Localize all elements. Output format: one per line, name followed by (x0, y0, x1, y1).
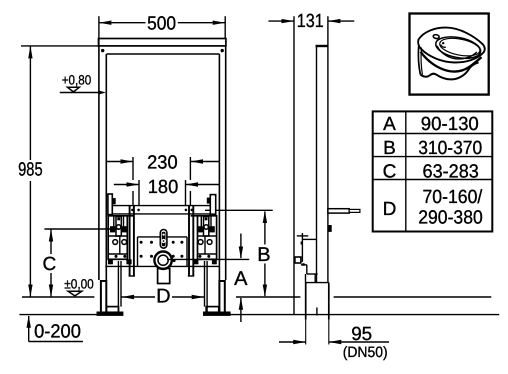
svg-text:D: D (383, 199, 397, 220)
svg-text:0-200: 0-200 (34, 321, 81, 342)
svg-text:+0,80: +0,80 (62, 72, 92, 87)
svg-text:95: 95 (351, 324, 372, 345)
svg-text:C: C (43, 254, 57, 275)
svg-text:D: D (156, 286, 170, 308)
svg-text:500: 500 (147, 14, 176, 35)
svg-text:131: 131 (297, 11, 324, 32)
svg-text:B: B (383, 138, 396, 159)
svg-text:70-160/: 70-160/ (423, 187, 483, 208)
svg-text:230: 230 (147, 153, 178, 174)
svg-text:180: 180 (148, 177, 179, 198)
svg-text:290-380: 290-380 (418, 208, 483, 229)
svg-text:±0,00: ±0,00 (64, 276, 94, 291)
svg-text:63-283: 63-283 (423, 162, 479, 183)
svg-text:310-370: 310-370 (418, 138, 482, 159)
svg-text:(DN50): (DN50) (343, 344, 388, 361)
svg-text:A: A (234, 268, 248, 290)
svg-text:C: C (383, 162, 397, 183)
svg-text:B: B (257, 244, 270, 266)
svg-text:985: 985 (18, 160, 43, 181)
svg-text:A: A (383, 114, 396, 135)
svg-text:90-130: 90-130 (421, 114, 479, 135)
